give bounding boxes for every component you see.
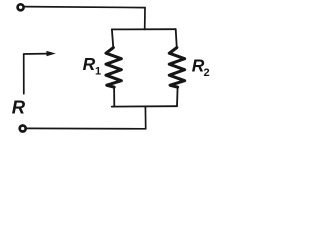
resistor R1: [106, 48, 121, 88]
wire R1 bottom lead: [113, 87, 115, 107]
wire feed vertical to top rail: [144, 8, 146, 30]
wire R1 top lead: [112, 29, 113, 48]
svg-text:R: R: [83, 54, 96, 74]
svg-text:2: 2: [204, 67, 210, 79]
arrowhead: [47, 51, 56, 56]
wire R2 bottom lead: [176, 87, 179, 106]
wire top horizontal: [25, 7, 145, 8]
svg-text:R: R: [12, 97, 26, 118]
wire bottom feed drop: [144, 106, 146, 128]
wire bottom horizontal: [27, 127, 146, 129]
wire top rail: [112, 28, 176, 30]
arrow R (looking-in resistance): [24, 54, 48, 94]
terminal T1 (top input): [18, 4, 24, 10]
svg-text:1: 1: [95, 65, 101, 77]
resistor R2: [169, 48, 184, 88]
wire R2 top lead: [176, 29, 177, 48]
wire bottom rail: [112, 105, 177, 107]
terminal T2 (bottom input): [20, 126, 26, 132]
